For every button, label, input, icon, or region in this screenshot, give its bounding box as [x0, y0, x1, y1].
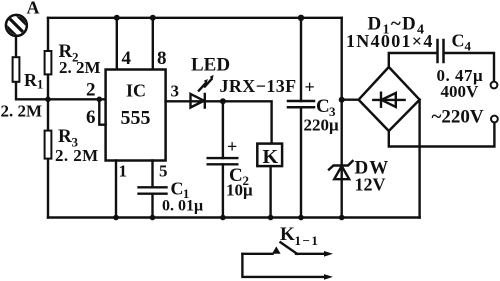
capacitor C4 — [438, 40, 444, 62]
resistor R2 — [45, 51, 52, 74]
node top rail C3 — [298, 15, 304, 21]
svg-text:2. 2M: 2. 2M — [59, 58, 101, 77]
svg-text:C: C — [171, 179, 184, 199]
node top rail pin8 — [150, 15, 156, 21]
wire pin6 — [99, 99, 105, 124]
svg-text:555: 555 — [121, 107, 151, 129]
svg-text:400V: 400V — [441, 82, 480, 101]
resistor R3 — [45, 131, 52, 159]
wire pin5 / C1 — [151, 161, 153, 218]
svg-text:K: K — [263, 146, 279, 168]
node bridge left vertex to column — [339, 97, 345, 103]
wire K to bus — [269, 166, 271, 217]
svg-text:2. 2M: 2. 2M — [1, 102, 43, 121]
wire C2 branch — [222, 101, 224, 217]
capacitor C3 — [288, 101, 314, 107]
node bus C2 — [220, 215, 226, 221]
wire bridge right vertex down — [418, 100, 420, 218]
svg-text:~220V: ~220V — [432, 107, 484, 128]
svg-text:1: 1 — [37, 78, 43, 92]
svg-text:220μ: 220μ — [304, 116, 340, 135]
svg-text:C: C — [316, 96, 330, 117]
wire plate to R1 and pin 2 line — [16, 36, 106, 100]
node LED-C2 junction — [220, 98, 226, 104]
terminal AC top — [491, 82, 498, 89]
svg-text:4: 4 — [465, 39, 472, 54]
svg-text:JRX−13F: JRX−13F — [220, 76, 297, 96]
svg-text:1−1: 1−1 — [295, 233, 320, 248]
svg-text:10μ: 10μ — [226, 181, 253, 200]
svg-text:6: 6 — [86, 107, 96, 128]
svg-text:12V: 12V — [355, 175, 386, 195]
svg-text:3: 3 — [171, 82, 180, 101]
bridge rectifier D1-D4 — [359, 67, 420, 131]
node bus DW — [339, 215, 345, 221]
touch plate A — [1, 0, 40, 53]
wire bottom lead — [242, 254, 326, 277]
node bus C3 — [298, 215, 304, 221]
svg-text:C: C — [452, 31, 465, 51]
wire bridge top to C4 — [389, 53, 494, 81]
wire bridge left vertex — [342, 98, 359, 100]
resistor R1 — [13, 57, 20, 82]
wire C3 branch — [300, 18, 302, 218]
wire pin4 — [116, 18, 118, 70]
node top rail pin4 — [114, 15, 120, 21]
bottom bus — [48, 216, 420, 218]
node bus pin1 — [113, 215, 119, 221]
capacitor C2 — [208, 158, 238, 164]
node bus C1 — [150, 215, 156, 221]
zener diode DW — [329, 161, 353, 170]
svg-text:+: + — [305, 77, 315, 97]
svg-text:2. 2M: 2. 2M — [55, 146, 99, 165]
switch contact K1-1 — [242, 253, 272, 255]
node pin2 junction — [97, 97, 103, 103]
svg-text:R: R — [24, 70, 38, 90]
capacitor C1 — [139, 187, 167, 193]
node bus K — [268, 215, 274, 221]
svg-text:1N4001×4: 1N4001×4 — [346, 31, 434, 51]
svg-text:1: 1 — [119, 162, 128, 181]
wire pin8 — [152, 18, 154, 70]
svg-text:IC: IC — [126, 81, 146, 101]
top rail — [48, 17, 342, 19]
svg-text:LED: LED — [191, 55, 230, 76]
wire pin3 to LED to relay coil — [166, 101, 272, 143]
IC 555 timer — [106, 70, 166, 161]
relay coil K — [257, 144, 282, 167]
wire DC+ right column with zener — [341, 18, 343, 218]
wire bridge bottom to AC terminal — [389, 123, 495, 147]
wire R2/R3 column — [47, 18, 49, 218]
terminal AC bottom — [491, 116, 498, 123]
svg-text:+: + — [227, 137, 237, 157]
svg-text:5: 5 — [159, 162, 168, 181]
wire pin1 — [115, 161, 117, 218]
node R1-R2-R3 junction — [45, 97, 51, 103]
svg-text:0. 01μ: 0. 01μ — [162, 198, 203, 215]
LED diode symbol — [191, 94, 205, 108]
svg-text:K: K — [280, 224, 295, 245]
svg-text:4: 4 — [122, 48, 132, 69]
svg-text:R: R — [58, 126, 72, 147]
svg-text:8: 8 — [157, 48, 167, 69]
svg-text:A: A — [27, 0, 40, 18]
svg-text:2: 2 — [86, 80, 96, 101]
